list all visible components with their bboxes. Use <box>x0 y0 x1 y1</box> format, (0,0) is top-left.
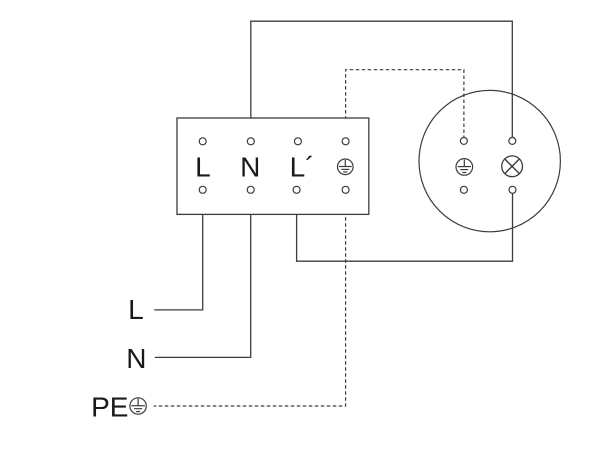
luminaire circle <box>419 90 560 231</box>
svg-text:N: N <box>126 343 146 374</box>
wire N-top to lamp (solid) <box>251 21 513 137</box>
wire N input <box>155 193 251 357</box>
terminal pin L' bottom <box>293 186 300 193</box>
svg-text:L: L <box>128 294 144 325</box>
earth symbol (block) <box>338 159 354 175</box>
terminal pin L top <box>199 138 206 145</box>
terminal pin PE bottom <box>342 186 349 193</box>
terminal pin N bottom <box>247 186 254 193</box>
fixture pin earth top <box>460 137 467 144</box>
svg-text:N: N <box>240 151 260 182</box>
svg-text:L: L <box>195 151 211 182</box>
svg-text:L´: L´ <box>290 151 315 182</box>
wire L input <box>154 193 202 310</box>
PE earth symbol <box>130 398 146 414</box>
terminal block body <box>177 118 369 214</box>
fixture pin earth bottom <box>460 186 467 193</box>
earth symbol (fixture) <box>456 159 473 176</box>
svg-text:PE: PE <box>91 391 128 422</box>
terminal pin PE top <box>342 138 349 145</box>
wire L'-bottom to lamp bottom <box>297 193 513 261</box>
terminal pin L' top <box>294 138 301 145</box>
wire PE-top to fixture earth (dashed) <box>346 70 464 138</box>
terminal pin L bottom <box>199 186 206 193</box>
lamp symbol <box>502 156 523 177</box>
wire PE input (dashed) <box>154 193 346 406</box>
terminal pin N top <box>247 138 254 145</box>
fixture pin lamp top <box>509 137 516 144</box>
fixture pin lamp bottom <box>509 186 516 193</box>
